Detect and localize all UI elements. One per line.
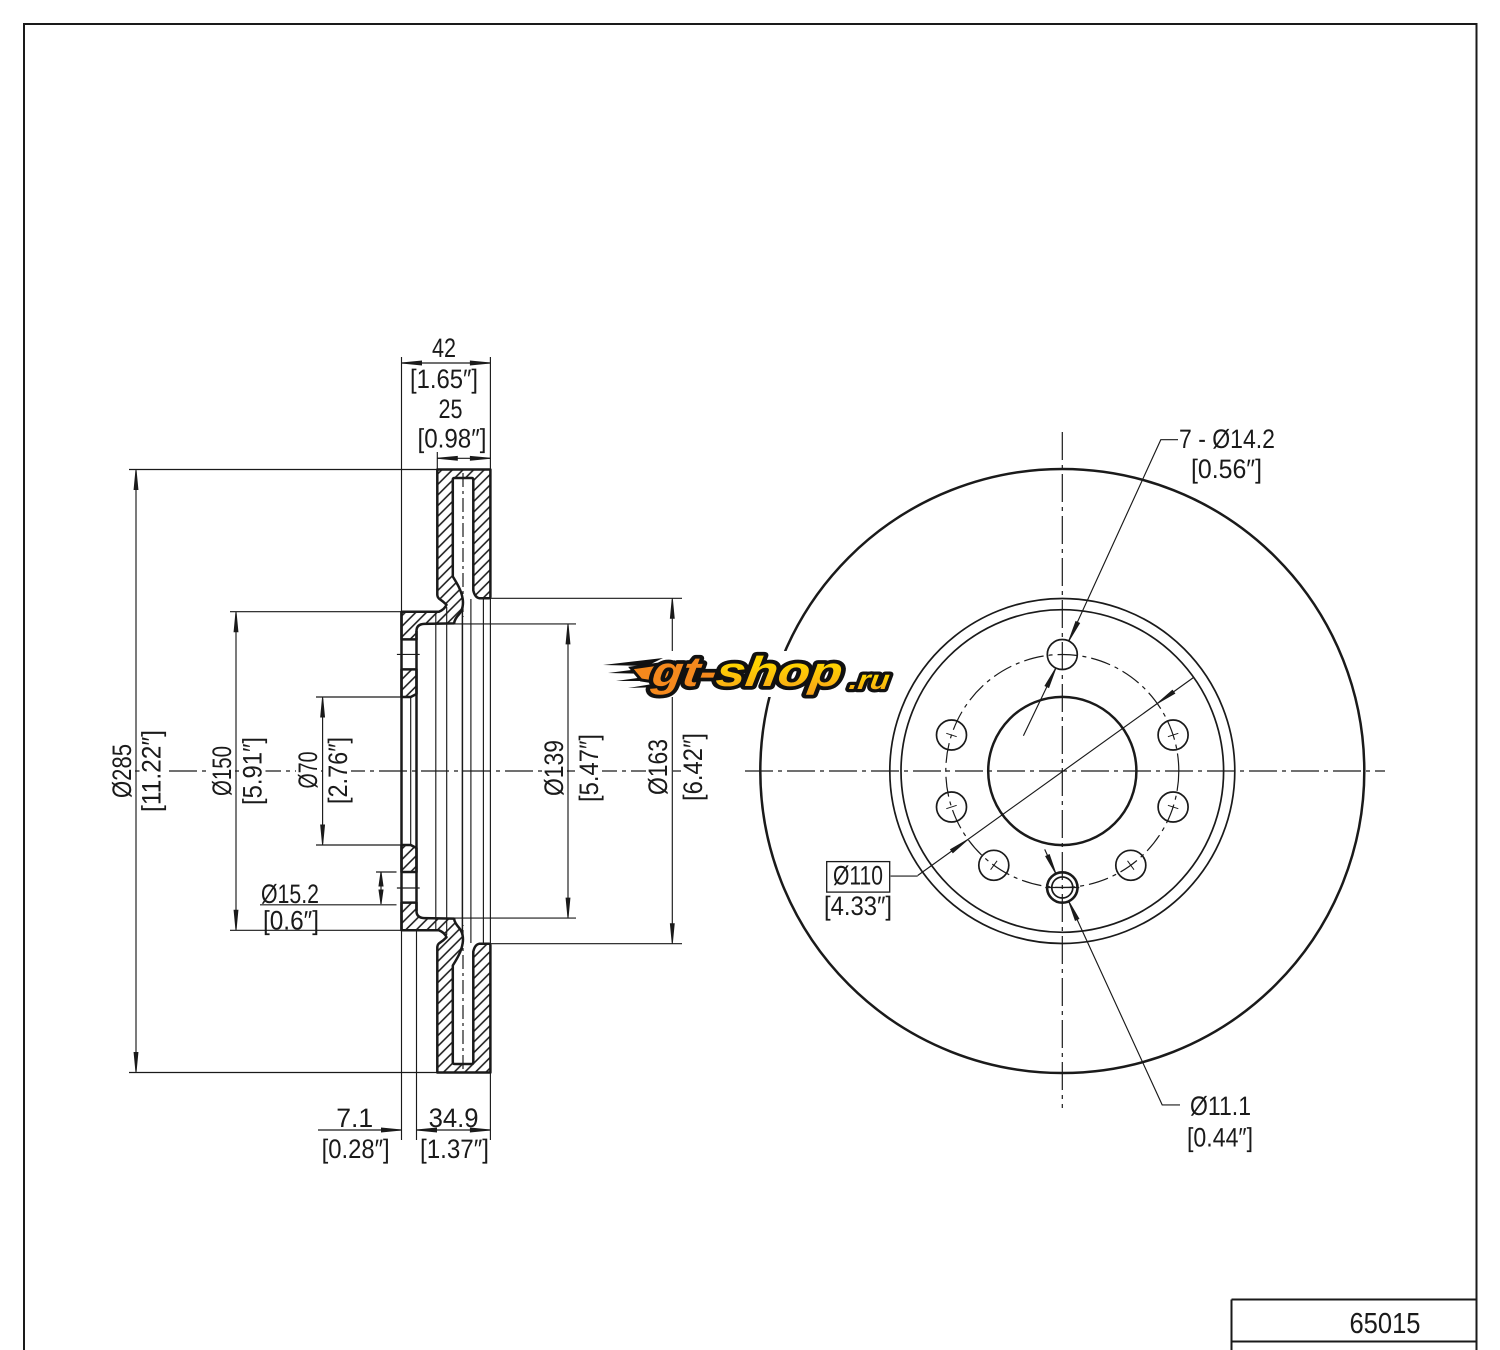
svg-text:[0.44″]: [0.44″] xyxy=(1187,1123,1253,1153)
svg-text:Ø11.1: Ø11.1 xyxy=(1190,1091,1251,1121)
svg-text:[0.28″]: [0.28″] xyxy=(322,1134,390,1164)
svg-text:Ø163: Ø163 xyxy=(643,739,673,795)
svg-text:[5.91″]: [5.91″] xyxy=(238,737,268,805)
svg-text:gt-: gt- xyxy=(648,648,720,695)
svg-text:[0.56″]: [0.56″] xyxy=(1191,454,1262,484)
svg-text:[5.47″]: [5.47″] xyxy=(574,734,604,802)
svg-text:Ø70: Ø70 xyxy=(293,752,323,789)
svg-text:[0.6″]: [0.6″] xyxy=(263,906,319,936)
svg-text:.ru: .ru xyxy=(847,665,892,695)
svg-text:42: 42 xyxy=(432,333,456,363)
svg-text:[4.33″]: [4.33″] xyxy=(824,891,892,921)
svg-text:[6.42″]: [6.42″] xyxy=(678,733,708,801)
svg-text:7 - Ø14.2: 7 - Ø14.2 xyxy=(1179,424,1275,454)
svg-text:[1.37″]: [1.37″] xyxy=(420,1134,489,1164)
svg-text:[0.98″]: [0.98″] xyxy=(417,424,486,454)
svg-text:[2.76″]: [2.76″] xyxy=(323,737,353,804)
svg-text:65015: 65015 xyxy=(1349,1308,1420,1340)
svg-text:25: 25 xyxy=(439,394,463,424)
svg-text:[11.22″]: [11.22″] xyxy=(137,730,167,812)
svg-text:Ø285: Ø285 xyxy=(107,744,137,798)
svg-text:34.9: 34.9 xyxy=(429,1103,479,1133)
svg-text:shop: shop xyxy=(713,648,846,695)
svg-text:Ø139: Ø139 xyxy=(539,740,569,796)
svg-text:Ø15.2: Ø15.2 xyxy=(261,879,319,909)
svg-text:[1.65″]: [1.65″] xyxy=(410,364,478,394)
svg-text:Ø110: Ø110 xyxy=(833,861,883,891)
svg-text:7.1: 7.1 xyxy=(336,1103,373,1133)
svg-text:Ø150: Ø150 xyxy=(207,746,237,796)
